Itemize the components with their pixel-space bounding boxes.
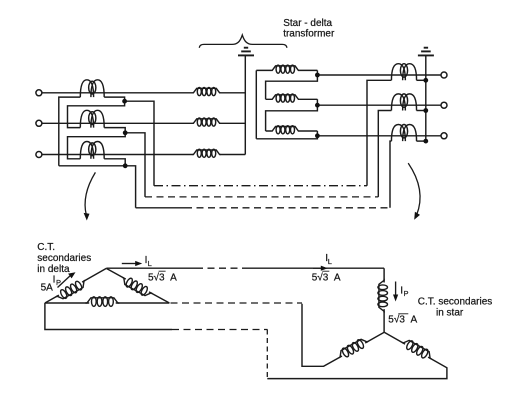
svg-text:secondaries: secondaries: [37, 253, 91, 264]
svg-text:L: L: [328, 257, 332, 266]
svg-text:P: P: [56, 278, 61, 287]
svg-text:in star: in star: [436, 307, 464, 318]
svg-text:L: L: [148, 259, 152, 268]
svg-text:P: P: [404, 289, 409, 298]
svg-text:C.T.: C.T.: [37, 242, 55, 253]
svg-text:Star - delta: Star - delta: [283, 18, 332, 29]
svg-text:in delta: in delta: [37, 264, 70, 275]
svg-text:I: I: [53, 275, 56, 286]
svg-text:5A: 5A: [41, 283, 54, 294]
svg-text:5√3 A: 5√3 A: [388, 313, 417, 325]
svg-text:5√3 A: 5√3 A: [312, 271, 341, 283]
svg-text:5√3 A: 5√3 A: [148, 271, 177, 283]
svg-text:C.T. secondaries: C.T. secondaries: [418, 296, 492, 307]
svg-text:transformer: transformer: [283, 29, 335, 40]
